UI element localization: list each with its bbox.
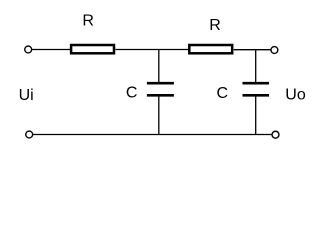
svg-text:C: C: [217, 85, 229, 102]
svg-text:R: R: [82, 12, 94, 29]
wire top rail: R2 to terminal top-right through node B: [234, 49, 271, 51]
wire: C1 bottom plate to bottom rail: [158, 96, 160, 135]
svg-text:R: R: [209, 17, 221, 34]
wire: node B down to C2 top plate: [255, 50, 257, 83]
capacitor C2 bottom plate: [243, 94, 270, 97]
svg-text:Uo: Uo: [285, 87, 306, 104]
wire top rail: R1 to R2 through node A: [116, 49, 189, 51]
capacitor C1 top plate: [147, 82, 174, 85]
svg-text:Ui: Ui: [19, 87, 34, 104]
wire bottom rail: [33, 134, 272, 136]
wire: node A down to C1 top plate: [158, 50, 160, 83]
resistor R1: [71, 45, 114, 53]
svg-text:C: C: [126, 85, 138, 102]
terminal bottom-left (Ui-): [26, 131, 33, 138]
terminal top-right (Uo+): [271, 47, 278, 54]
terminal top-left (Ui+): [25, 46, 32, 53]
terminal bottom-right (Uo-): [272, 131, 279, 138]
resistor R2: [189, 45, 232, 53]
capacitor C1 bottom plate: [147, 94, 174, 97]
wire: C2 bottom plate to bottom rail: [255, 96, 257, 135]
capacitor C2 top plate: [243, 82, 270, 85]
wire top rail: terminal to R1: [32, 49, 71, 51]
